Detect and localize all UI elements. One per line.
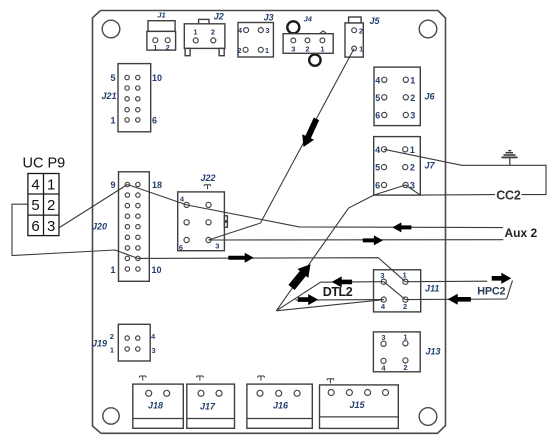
svg-text:J17: J17	[200, 401, 216, 411]
board outline	[93, 11, 446, 434]
arrow right on J20 wire	[228, 253, 253, 263]
arrow right HPC2	[492, 273, 512, 284]
connector J3	[237, 13, 273, 58]
svg-text:9: 9	[110, 180, 115, 190]
svg-text:J3: J3	[264, 13, 274, 23]
svg-text:2: 2	[403, 302, 407, 311]
connector J2	[184, 12, 225, 56]
wire line C vertex to J11 pin4	[276, 300, 383, 311]
connector J17	[187, 376, 235, 428]
svg-text:3: 3	[381, 333, 385, 342]
svg-text:2: 2	[410, 93, 415, 103]
ground symbol	[502, 151, 518, 166]
arrow left HPC2	[448, 294, 471, 305]
svg-text:3: 3	[380, 271, 384, 280]
svg-text:2: 2	[305, 44, 309, 53]
svg-text:5: 5	[375, 163, 380, 173]
svg-text:2: 2	[410, 163, 415, 173]
svg-text:1: 1	[410, 75, 415, 85]
wire HPC2 bottom line to J11 pin2	[405, 298, 506, 301]
svg-text:4: 4	[375, 75, 380, 85]
svg-text:J21: J21	[102, 91, 117, 101]
wire J7 V to pin3	[374, 185, 421, 195]
svg-text:5: 5	[110, 73, 115, 83]
svg-text:3: 3	[410, 111, 415, 121]
svg-text:6: 6	[152, 115, 157, 125]
arrow left on Aux2 upper line	[392, 222, 411, 232]
svg-text:1: 1	[265, 46, 269, 55]
svg-text:J7: J7	[425, 160, 436, 170]
svg-text:4: 4	[31, 176, 39, 193]
connector J13	[373, 332, 440, 373]
UC P9 table	[23, 156, 66, 236]
wire line D with right arrow to J11 pin4	[296, 299, 384, 302]
wire J20 pin2 to J11 pin1	[138, 258, 406, 282]
svg-text:CC2: CC2	[496, 189, 521, 203]
svg-text:4: 4	[375, 145, 380, 155]
svg-text:3: 3	[291, 44, 295, 53]
svg-text:J1: J1	[157, 11, 165, 20]
svg-text:1: 1	[320, 44, 324, 53]
svg-text:1: 1	[410, 145, 415, 155]
svg-text:3: 3	[215, 242, 219, 251]
svg-text:1: 1	[403, 271, 407, 280]
connector J16	[247, 376, 312, 428]
svg-text:J16: J16	[273, 401, 289, 411]
arrow down-left on J5 wire	[298, 116, 323, 150]
svg-text:6: 6	[31, 218, 39, 235]
arrow left on DTL2 upper line	[332, 276, 352, 287]
connector J7	[374, 137, 436, 196]
svg-text:1: 1	[359, 45, 363, 54]
wire J22 pin3 to Aux2 lower line	[209, 239, 504, 241]
wire HPC2 top line from J11 pin1	[405, 280, 487, 283]
svg-text:2: 2	[237, 46, 241, 55]
svg-text:J6: J6	[425, 92, 436, 102]
svg-text:J15: J15	[349, 400, 365, 410]
svg-text:J2: J2	[214, 12, 224, 22]
svg-text:J18: J18	[148, 401, 163, 411]
connector J6	[374, 67, 436, 126]
wire J11 pin3 to pin2 internal	[384, 282, 406, 300]
connector J11	[374, 270, 440, 312]
svg-text:3: 3	[47, 218, 55, 235]
mounting hole bottom-right	[419, 408, 437, 426]
connector J1	[147, 11, 176, 52]
svg-text:J19: J19	[92, 338, 107, 348]
svg-text:J5: J5	[369, 16, 380, 26]
svg-text:J22: J22	[200, 173, 215, 183]
connector J20	[92, 172, 162, 281]
svg-text:J4: J4	[304, 14, 313, 23]
big arrow up-right on line A	[286, 260, 316, 292]
svg-text:J20: J20	[92, 222, 107, 232]
flag edge HPC2	[507, 281, 513, 300]
svg-text:5: 5	[31, 197, 39, 214]
svg-text:2: 2	[211, 28, 215, 37]
svg-text:2: 2	[166, 43, 170, 52]
wire line A from J7 corner to DTL2 vertex	[276, 195, 373, 311]
connector J5	[345, 16, 380, 57]
svg-text:5: 5	[375, 93, 380, 103]
wire UC P9 pin5 loop to J20 pin2	[12, 204, 138, 258]
mounting hole top-left	[102, 20, 120, 38]
svg-text:2: 2	[359, 26, 363, 35]
connector J22	[178, 173, 228, 252]
connector J4	[283, 14, 333, 65]
wire J5 pin1 to J22 pin3	[209, 49, 355, 241]
svg-text:3: 3	[265, 26, 269, 35]
svg-text:J11: J11	[425, 283, 439, 293]
svg-text:1: 1	[153, 43, 157, 52]
mounting hole bottom-left	[103, 408, 119, 424]
svg-text:3: 3	[152, 346, 156, 355]
svg-text:1: 1	[47, 176, 55, 193]
svg-text:6: 6	[179, 243, 183, 252]
svg-text:UC P9: UC P9	[23, 156, 66, 172]
arrow right on Aux2 lower line	[363, 235, 383, 245]
svg-text:2: 2	[110, 332, 114, 341]
svg-text:10: 10	[152, 265, 162, 275]
wire line B J11 pin3 to vertex	[276, 282, 383, 311]
svg-text:J13: J13	[426, 347, 441, 357]
svg-text:10: 10	[152, 73, 162, 83]
connector J21	[102, 64, 163, 132]
svg-text:HPC2: HPC2	[477, 286, 505, 298]
wire CC2 loop from J7 pin4	[384, 149, 546, 194]
svg-text:1: 1	[110, 265, 115, 275]
svg-text:1: 1	[110, 346, 114, 355]
wire CC2 continue to J7 corner	[420, 194, 495, 197]
wire J20 pin9 to J22 pin4 to Aux2 upper line	[127, 185, 503, 228]
svg-text:1: 1	[110, 115, 115, 125]
connector J18	[133, 376, 184, 428]
wire UC P9 pin3 to J20 pin9	[60, 185, 128, 228]
svg-text:1: 1	[193, 28, 197, 37]
connector J19	[92, 324, 156, 361]
svg-text:2: 2	[403, 363, 407, 372]
svg-text:DTL2: DTL2	[323, 285, 353, 299]
arrow right on DTL2 lower line	[298, 294, 318, 305]
svg-text:Aux 2: Aux 2	[505, 226, 538, 240]
svg-text:18: 18	[152, 180, 162, 190]
svg-text:6: 6	[375, 181, 380, 191]
svg-text:2: 2	[47, 197, 55, 214]
svg-text:6: 6	[375, 111, 380, 121]
connector J15	[320, 379, 399, 429]
svg-text:1: 1	[403, 332, 407, 341]
mounting hole top-right	[419, 20, 437, 38]
